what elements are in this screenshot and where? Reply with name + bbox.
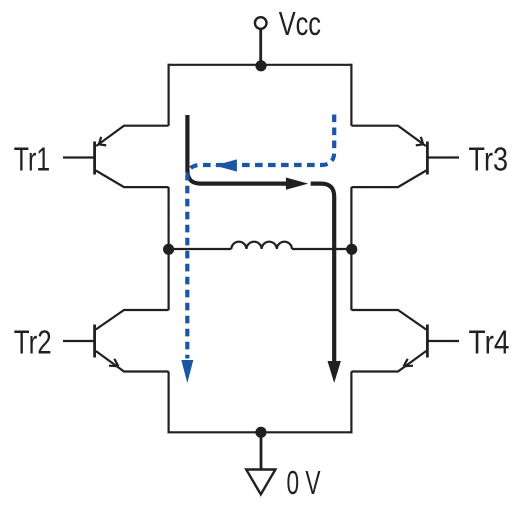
node bottom junction dot: [255, 427, 266, 438]
wire left rail upper segment: [168, 64, 170, 126]
svg-text:Tr1: Tr1: [14, 141, 51, 178]
svg-text:Tr3: Tr3: [469, 141, 509, 178]
ground 0V triangle: [246, 470, 275, 495]
svg-text:Tr4: Tr4: [469, 324, 510, 361]
svg-text:Tr2: Tr2: [14, 324, 52, 361]
terminal Vcc open circle: [255, 17, 267, 29]
current path dashed blue (Tr3 to Tr2): [181, 113, 334, 383]
node left mid junction dot: [163, 244, 174, 255]
transistor Tr1: [63, 126, 169, 187]
svg-text:0 V: 0 V: [287, 464, 321, 501]
inductor L: [231, 242, 292, 249]
svg-text:Vcc: Vcc: [279, 5, 321, 42]
wire left rail middle segment: [168, 187, 170, 310]
current path solid black (Tr1 to Tr4): [187, 115, 341, 383]
wire mid rail left: [169, 248, 232, 250]
wire Vcc stub: [259, 29, 262, 66]
wire right rail middle segment: [350, 187, 352, 310]
transistor Tr3: [351, 126, 459, 187]
wire ground stub: [260, 432, 263, 470]
transistor Tr2: [63, 310, 169, 372]
node right mid junction dot: [346, 244, 357, 255]
wire right rail upper segment: [350, 64, 352, 126]
node Vcc junction dot: [255, 60, 266, 71]
wire bottom rail: [169, 431, 352, 433]
wire left rail lower segment: [168, 372, 170, 434]
wire right rail lower segment: [350, 372, 352, 434]
transistor Tr4: [351, 310, 459, 372]
wire top rail: [169, 64, 352, 66]
wire mid rail right: [292, 248, 351, 250]
